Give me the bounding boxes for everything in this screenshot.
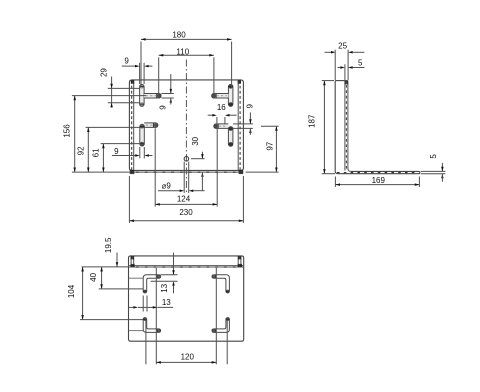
svg-text:19.5: 19.5: [104, 237, 113, 253]
svg-text:169: 169: [372, 176, 386, 185]
svg-text:5: 5: [429, 154, 438, 159]
svg-text:9: 9: [158, 105, 167, 110]
svg-text:92: 92: [77, 146, 86, 155]
svg-text:13: 13: [160, 283, 169, 292]
svg-text:16: 16: [217, 103, 226, 112]
svg-text:104: 104: [67, 284, 76, 298]
svg-text:97: 97: [266, 141, 275, 150]
svg-text:9: 9: [124, 57, 129, 66]
svg-text:61: 61: [92, 148, 101, 157]
svg-text:110: 110: [176, 48, 189, 57]
svg-text:5: 5: [358, 58, 363, 67]
svg-text:124: 124: [177, 194, 191, 203]
svg-text:180: 180: [172, 31, 186, 40]
svg-text:187: 187: [308, 114, 317, 128]
svg-text:9: 9: [114, 147, 119, 156]
svg-text:⌀9: ⌀9: [162, 181, 172, 190]
svg-text:13: 13: [162, 298, 171, 307]
svg-text:120: 120: [181, 352, 195, 361]
svg-text:9: 9: [245, 103, 254, 108]
svg-text:40: 40: [89, 272, 98, 281]
svg-text:29: 29: [99, 68, 108, 77]
svg-text:230: 230: [179, 208, 193, 217]
svg-text:30: 30: [191, 136, 200, 145]
svg-text:25: 25: [338, 42, 347, 51]
svg-text:156: 156: [63, 124, 72, 138]
